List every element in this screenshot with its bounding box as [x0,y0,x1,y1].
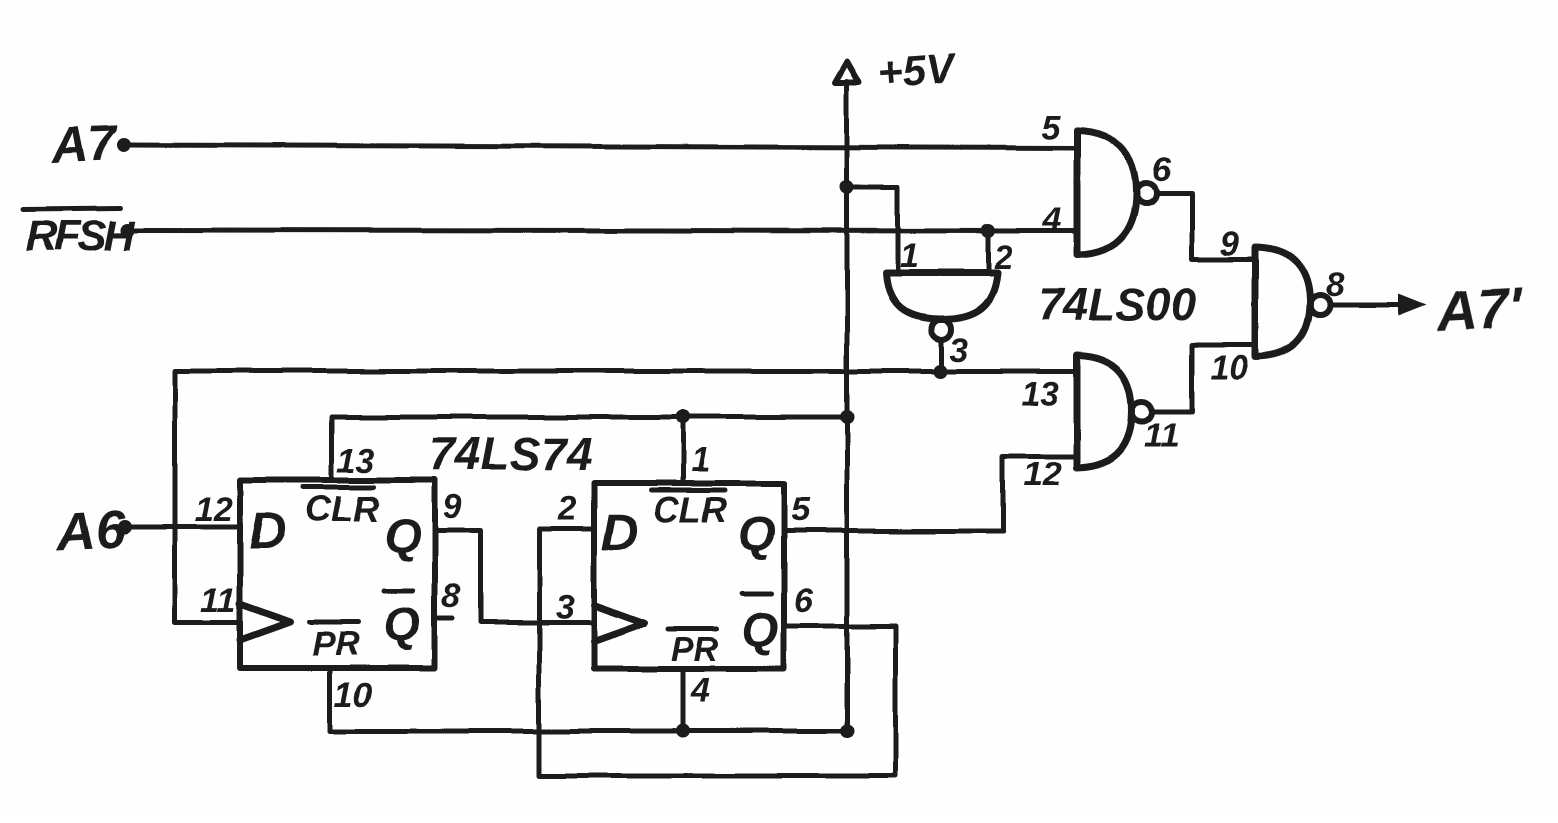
pin label 12 (FF1 D) [195,491,233,529]
nand U1a (pins 5,4 -> 6) [1077,130,1156,255]
svg-text:3: 3 [555,588,574,626]
svg-text:A6: A6 [54,500,127,563]
pin label 3 [949,331,968,369]
junction +5V to U1c pin1 [840,180,854,194]
wire RFSH to U1c pin2 [986,231,991,271]
FF2 clock triangle [594,605,644,641]
junction RFSH to U1c pin2 [981,224,995,238]
svg-text:CLR: CLR [653,489,727,530]
svg-text:6: 6 [1152,151,1172,189]
svg-text:2: 2 [993,239,1013,277]
svg-text:D: D [601,504,639,562]
net A7' label [1433,276,1525,344]
wire A7 to U1a pin5 [128,145,1077,148]
svg-text:11: 11 [1144,417,1179,455]
svg-text:8: 8 [1326,266,1345,304]
svg-text:Q: Q [384,510,421,563]
pin label 6 (FF2 Qbar) [794,582,814,620]
pin label 6 [1152,151,1172,189]
wire U1d out with arrow to A7' [1330,294,1427,316]
pin label 5 (FF2 Q) [791,491,811,529]
svg-text:6: 6 [794,582,814,620]
svg-text:11: 11 [201,582,236,620]
wire U1a out to U1d pin9 [1156,193,1255,259]
pin label 4 [1042,201,1062,239]
svg-text:5: 5 [791,491,811,529]
svg-text:Q: Q [383,599,420,652]
svg-text:12: 12 [195,491,233,529]
nand U1b (pins 13,12 -> 11) [1077,355,1152,468]
svg-text:D: D [249,503,287,561]
svg-text:RFSH: RFSH [26,212,135,260]
pin label 8 [1326,266,1345,304]
junction CLR rail to +5V [840,410,854,424]
svg-text:74LS00: 74LS00 [1038,279,1196,330]
pin label 5 [1041,109,1061,147]
svg-text:A7: A7 [49,115,119,173]
pin label 11 (FF1 clk) [201,582,236,620]
FF1 label CLR [303,487,379,529]
pin label 10 (FF1 PR) [334,676,372,714]
pin label 9 (FF1 Q) [443,488,462,526]
pin label 4 (FF2 PR) [690,672,710,710]
wire FF1 Q to FF2 clock [435,530,594,622]
node A6 terminal dot [117,520,131,534]
FF1 label Qbar [383,591,420,652]
pin label 2 (FF2 D) [557,490,577,528]
FF1 clock triangle [240,604,290,640]
svg-text:13: 13 [1021,375,1059,413]
label 74LS74 [429,428,593,480]
node RFSH terminal dot [120,223,134,237]
FF2 label D [601,504,639,562]
power +5V symbol [835,44,958,731]
svg-text:1: 1 [691,441,710,479]
svg-text:4: 4 [690,672,710,710]
FF2 PR riser [681,669,686,731]
pin label 9 [1220,225,1239,263]
wire U1c out to U1b pin13 and left rail [175,371,1077,623]
FF2 label PR [668,629,719,669]
nand U1d (pins 9,10 -> 8) [1255,247,1330,357]
net A7 label [49,115,119,173]
svg-text:Q: Q [741,604,778,657]
wire FF1 Qbar stub [435,617,453,622]
FF1 label Q [384,510,421,563]
flip-flop FF2 (74LS74 second half) body [594,483,784,669]
pin label 10 [1210,349,1248,387]
pin label 13 (FF1 CLR) [337,442,375,480]
junction PR rail to +5V [840,724,854,738]
wire U1b out to U1d pin10 [1152,345,1255,412]
wire FF2 Q to U1b pin12 [784,457,1077,531]
svg-text:10: 10 [1210,349,1248,387]
svg-text:2: 2 [557,490,577,528]
svg-text:10: 10 [334,676,372,714]
label 74LS00 [1038,279,1196,330]
wire FF1 PR riser [328,668,333,731]
pin label 2 [993,239,1013,277]
wire RFSH to U1a pin4 [131,230,1077,231]
node A7 terminal dot [117,138,131,152]
FF2 label CLR [651,489,727,530]
pin label 11 [1144,417,1179,455]
pin label 13 [1021,375,1059,413]
wire CLR rail (pin13 / pin1 to +5V) [332,417,847,480]
svg-text:9: 9 [443,488,462,526]
FF1 label PR [309,622,360,663]
svg-text:1: 1 [900,237,919,275]
FF2 label Qbar [741,594,778,657]
wire FF2 D feedback loop from Qbar [539,529,895,776]
junction PR rail FF2 pin4 [676,724,690,738]
pin label 3 (FF2 clk) [555,588,574,626]
junction CLR pin1 riser [676,410,690,424]
svg-text:9: 9 [1220,225,1239,263]
nand U1c (down-facing, pins 1,2 -> 3) [886,273,997,371]
FF2 label Q [738,508,775,561]
wire pin1 riser [681,417,686,483]
net RFSH label [24,208,135,260]
junction U1c output node [933,364,947,378]
flip-flop FF1 (74LS74 first half) body [240,480,435,668]
svg-text:4: 4 [1042,201,1062,239]
pin label 1 [900,237,919,275]
svg-text:PR: PR [671,631,719,669]
wire PR rail to +5V [330,729,847,734]
wire +5V to U1c pin1 [847,187,898,271]
pin label 1 (FF2 CLR) [691,441,710,479]
svg-text:3: 3 [949,331,968,369]
FF1 label D [249,503,287,561]
svg-text:74LS74: 74LS74 [429,428,593,480]
svg-text:5: 5 [1041,109,1061,147]
wire A6 to FF1 pin12 [128,525,240,530]
svg-text:A7': A7' [1433,276,1525,344]
svg-text:PR: PR [312,625,360,663]
pin label 8 (FF1 Qbar) [442,578,461,616]
svg-text:Q: Q [738,508,775,561]
pin label 12 [1024,456,1062,494]
svg-text:12: 12 [1024,456,1062,494]
svg-text:8: 8 [442,578,461,616]
svg-text:13: 13 [337,442,375,480]
svg-text:CLR: CLR [305,488,379,529]
net A6 label [54,500,127,563]
svg-text:+5V: +5V [877,44,959,96]
